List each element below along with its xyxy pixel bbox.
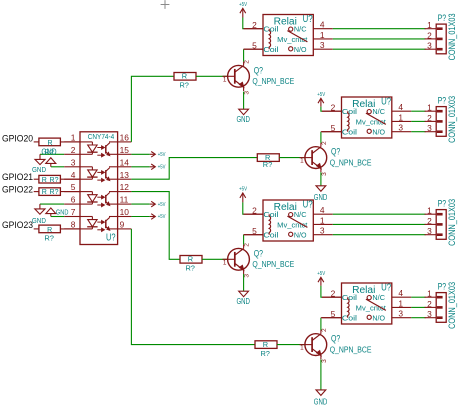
wire relay1 pin1 to P1 bbox=[333, 38, 426, 40]
svg-text:4: 4 bbox=[71, 170, 76, 180]
svg-text:U?: U? bbox=[303, 14, 313, 25]
svg-text:GND: GND bbox=[236, 114, 250, 124]
opto channel 1 (LED + phototransistor) bbox=[80, 142, 118, 157]
svg-text:Q_NPN_BCE: Q_NPN_BCE bbox=[330, 344, 372, 354]
svg-text:1: 1 bbox=[320, 215, 325, 225]
wire +5V to relay 2 coil bbox=[321, 107, 342, 112]
power +5V (horizontal) bbox=[150, 214, 166, 221]
svg-text:+5V: +5V bbox=[158, 152, 166, 158]
wire relay4 pin1 to P4 bbox=[411, 306, 425, 308]
svg-text:9: 9 bbox=[120, 220, 125, 230]
svg-text:GPIO21: GPIO21 bbox=[2, 171, 33, 182]
svg-text:10: 10 bbox=[120, 207, 130, 217]
wire relay4 pin3 to P4 bbox=[411, 317, 425, 319]
svg-text:2: 2 bbox=[244, 243, 251, 247]
transistor Q4 Q_NPN_BCE bbox=[300, 328, 328, 363]
svg-text:Q_NPN_BCE: Q_NPN_BCE bbox=[252, 259, 294, 269]
opto channel 4 (LED + phototransistor) bbox=[80, 217, 118, 232]
resistor R? (GPIO22 input) bbox=[34, 188, 80, 196]
svg-text:2: 2 bbox=[427, 216, 432, 226]
svg-text:N/C: N/C bbox=[294, 210, 307, 219]
connector P? CONN_01X03 (1) bbox=[425, 13, 458, 60]
wire pin6 to GND bbox=[40, 203, 64, 205]
power +5V (relay 3) bbox=[239, 187, 247, 203]
svg-text:Q?: Q? bbox=[254, 65, 263, 75]
svg-text:U?: U? bbox=[303, 200, 313, 211]
Q2 labels bbox=[330, 147, 372, 168]
svg-text:Coil: Coil bbox=[263, 231, 279, 240]
ground GND (Q2) bbox=[314, 186, 328, 202]
wire pin16 to R (channel 1) bbox=[131, 76, 174, 142]
resistor R? (GPIO21 input) bbox=[34, 175, 80, 183]
power +5V (relay 4) bbox=[317, 271, 325, 286]
resistor R? (GPIO20 input) bbox=[34, 138, 80, 156]
svg-text:12: 12 bbox=[120, 182, 130, 192]
svg-text:R?: R? bbox=[50, 189, 59, 196]
ground GND (pin 6) bbox=[32, 204, 46, 225]
svg-text:R?: R? bbox=[50, 177, 59, 184]
svg-text:4: 4 bbox=[398, 102, 403, 112]
relay U? Relai (4) bbox=[322, 283, 411, 324]
wire Q3 collector to relay 3 bbox=[244, 235, 263, 245]
label GPIO23 bbox=[2, 219, 33, 230]
ground GND (pin 7, inverted) bbox=[46, 207, 69, 216]
power +5V (horizontal) bbox=[150, 164, 166, 171]
svg-text:P?: P? bbox=[438, 199, 447, 210]
svg-text:6: 6 bbox=[71, 195, 76, 205]
wire pin12 to R (channel 3) bbox=[131, 192, 180, 260]
svg-text:R: R bbox=[42, 177, 47, 184]
svg-text:3: 3 bbox=[244, 91, 251, 95]
label GPIO22 bbox=[2, 184, 33, 195]
svg-text:P?: P? bbox=[438, 282, 447, 293]
wire Q2 emitter to GND bbox=[320, 172, 322, 186]
ground GND (pin 2) bbox=[32, 154, 46, 174]
svg-text:GPIO23: GPIO23 bbox=[2, 219, 33, 230]
svg-text:R?: R? bbox=[260, 349, 269, 358]
svg-text:1: 1 bbox=[320, 30, 325, 40]
ground GND (pin 3, inverted) bbox=[41, 148, 56, 167]
sheet origin crosshair bbox=[161, 0, 170, 9]
svg-text:CNY74-4: CNY74-4 bbox=[88, 134, 115, 141]
svg-text:N/O: N/O bbox=[372, 128, 385, 137]
Q3 labels bbox=[252, 248, 294, 269]
Q1 labels bbox=[252, 65, 294, 86]
svg-text:Q?: Q? bbox=[331, 147, 340, 157]
svg-text:N/C: N/C bbox=[294, 25, 307, 34]
svg-text:P?: P? bbox=[438, 96, 447, 107]
wire pin3 to GND bbox=[51, 166, 64, 168]
svg-text:CONN_01X03: CONN_01X03 bbox=[447, 282, 458, 329]
svg-text:GND: GND bbox=[32, 216, 46, 225]
svg-text:1: 1 bbox=[427, 20, 432, 30]
svg-text:Q_NPN_BCE: Q_NPN_BCE bbox=[330, 157, 372, 167]
svg-text:4: 4 bbox=[320, 20, 325, 30]
svg-text:1: 1 bbox=[427, 289, 432, 299]
wire +5V to relay 1 coil bbox=[243, 18, 263, 29]
svg-text:GND: GND bbox=[236, 296, 250, 306]
svg-text:13: 13 bbox=[120, 170, 130, 180]
svg-text:R: R bbox=[42, 189, 47, 196]
svg-text:3: 3 bbox=[427, 309, 432, 319]
wire relay1 pin4 to P1 bbox=[333, 28, 426, 30]
svg-text:1: 1 bbox=[427, 103, 432, 113]
wire R to Q3 base bbox=[202, 258, 228, 260]
wire Q2 collector to relay 2 bbox=[321, 132, 342, 143]
svg-text:+5V: +5V bbox=[239, 2, 247, 8]
U? pins left (1-8) bbox=[64, 133, 80, 230]
svg-text:2: 2 bbox=[427, 30, 432, 40]
svg-text:+5V: +5V bbox=[239, 187, 247, 193]
svg-text:R?: R? bbox=[44, 233, 54, 242]
svg-text:1: 1 bbox=[427, 206, 432, 216]
ground GND (Q1) bbox=[236, 109, 250, 124]
svg-text:N/O: N/O bbox=[294, 231, 307, 240]
svg-text:5: 5 bbox=[331, 123, 336, 133]
resistor R? (channel 1) bbox=[174, 72, 196, 90]
wire Q4 collector to relay 4 bbox=[321, 318, 342, 330]
svg-text:2: 2 bbox=[427, 113, 432, 123]
svg-text:4: 4 bbox=[398, 288, 403, 298]
wire R to Q4 base bbox=[277, 344, 305, 346]
svg-text:3: 3 bbox=[398, 123, 403, 133]
svg-text:P?: P? bbox=[438, 13, 447, 24]
svg-text:2: 2 bbox=[427, 299, 432, 309]
svg-text:R: R bbox=[47, 140, 52, 147]
svg-text:3: 3 bbox=[427, 41, 432, 51]
svg-text:R?: R? bbox=[263, 160, 272, 169]
svg-text:1: 1 bbox=[223, 259, 227, 266]
wire pin to +5V bbox=[131, 203, 149, 205]
svg-text:GND: GND bbox=[41, 148, 56, 157]
relay U? Relai (1) bbox=[244, 14, 333, 55]
transistor Q2 Q_NPN_BCE bbox=[300, 141, 328, 176]
label GPIO20 bbox=[2, 132, 33, 143]
svg-text:5: 5 bbox=[71, 182, 76, 192]
connector P? CONN_01X03 (4) bbox=[425, 282, 458, 329]
svg-text:Coil: Coil bbox=[342, 314, 358, 323]
wire relay2 pin1 to P2 bbox=[411, 120, 425, 122]
svg-text:GND: GND bbox=[56, 207, 69, 216]
resistor R? (channel 4) bbox=[255, 340, 277, 358]
wire pin2 to GND bbox=[40, 153, 64, 155]
wire relay4 pin4 to P4 bbox=[411, 296, 425, 298]
relay U? Relai (3) bbox=[244, 200, 333, 241]
svg-text:R: R bbox=[182, 72, 187, 81]
svg-text:2: 2 bbox=[71, 145, 76, 155]
svg-text:1: 1 bbox=[300, 345, 304, 352]
svg-text:8: 8 bbox=[71, 220, 76, 230]
svg-text:7: 7 bbox=[71, 207, 76, 217]
wire relay2 pin3 to P2 bbox=[411, 131, 425, 133]
wire pin to +5V bbox=[131, 153, 149, 155]
svg-text:U?: U? bbox=[106, 233, 116, 244]
svg-text:GND: GND bbox=[314, 192, 328, 202]
power +5V (relay 1) bbox=[239, 2, 247, 17]
power +5V (relay 2) bbox=[317, 92, 325, 107]
svg-text:Q?: Q? bbox=[331, 334, 340, 344]
wire Q1 emitter to GND bbox=[243, 92, 245, 110]
wire Q1 collector to relay 1 bbox=[244, 49, 263, 61]
resistor R? (GPIO23 input) bbox=[34, 225, 80, 242]
svg-text:R?: R? bbox=[185, 264, 194, 273]
svg-text:5: 5 bbox=[252, 40, 257, 50]
U? pins right (16-9) bbox=[118, 133, 132, 230]
svg-text:5: 5 bbox=[252, 226, 257, 236]
svg-text:5: 5 bbox=[331, 309, 336, 319]
svg-text:U?: U? bbox=[381, 283, 391, 294]
resistor R? (channel 2) bbox=[257, 153, 279, 169]
svg-text:16: 16 bbox=[120, 133, 130, 143]
power +5V (horizontal) bbox=[150, 152, 166, 159]
wire pin9 to R (channel 4) bbox=[131, 229, 255, 345]
svg-text:Coil: Coil bbox=[263, 25, 279, 34]
svg-text:2: 2 bbox=[252, 20, 257, 30]
wire +5V to relay 3 coil bbox=[243, 202, 263, 214]
svg-text:11: 11 bbox=[120, 195, 129, 205]
svg-text:3: 3 bbox=[321, 172, 328, 176]
power +5V (horizontal) bbox=[150, 201, 166, 208]
svg-text:N/O: N/O bbox=[372, 314, 385, 323]
svg-text:R?: R? bbox=[179, 81, 188, 90]
svg-text:CONN_01X03: CONN_01X03 bbox=[447, 96, 458, 143]
ground GND (Q3) bbox=[236, 291, 250, 306]
svg-text:3: 3 bbox=[398, 309, 403, 319]
svg-text:GPIO22: GPIO22 bbox=[2, 184, 33, 195]
svg-text:N/C: N/C bbox=[372, 107, 385, 116]
svg-text:GND: GND bbox=[314, 397, 328, 407]
svg-text:4: 4 bbox=[320, 205, 325, 215]
wire R to Q2 base bbox=[279, 157, 304, 159]
svg-text:U?: U? bbox=[381, 97, 391, 108]
svg-text:14: 14 bbox=[120, 157, 130, 167]
svg-text:3: 3 bbox=[244, 274, 251, 278]
svg-text:CONN_01X03: CONN_01X03 bbox=[447, 199, 458, 246]
svg-text:R: R bbox=[188, 255, 193, 264]
wire +5V to relay 4 coil bbox=[321, 286, 342, 297]
transistor Q3 Q_NPN_BCE bbox=[223, 243, 251, 278]
svg-text:N/O: N/O bbox=[294, 45, 307, 54]
opto channel 2 (LED + phototransistor) bbox=[80, 167, 118, 182]
svg-text:+5V: +5V bbox=[158, 202, 166, 208]
svg-text:+5V: +5V bbox=[158, 165, 166, 171]
svg-text:2: 2 bbox=[252, 205, 257, 215]
svg-text:Q?: Q? bbox=[254, 248, 263, 258]
wire relay2 pin4 to P2 bbox=[411, 110, 425, 112]
optocoupler U? CNY74-4 body bbox=[80, 132, 118, 245]
svg-text:Coil: Coil bbox=[263, 45, 279, 54]
svg-text:2: 2 bbox=[244, 60, 251, 64]
svg-text:Coil: Coil bbox=[342, 293, 358, 302]
wire pin to +5V bbox=[131, 166, 149, 168]
svg-text:3: 3 bbox=[321, 359, 328, 363]
svg-text:+5V: +5V bbox=[158, 214, 166, 220]
relay U? Relai (2) bbox=[322, 97, 411, 138]
svg-text:GND: GND bbox=[32, 165, 46, 174]
svg-text:3: 3 bbox=[427, 123, 432, 133]
svg-text:CONN_01X03: CONN_01X03 bbox=[447, 13, 458, 60]
svg-text:3: 3 bbox=[320, 226, 325, 236]
wire R to Q1 base bbox=[196, 75, 228, 77]
svg-text:+5V: +5V bbox=[317, 92, 325, 98]
transistor Q1 Q_NPN_BCE bbox=[223, 60, 251, 95]
resistor R? (channel 3) bbox=[180, 255, 202, 273]
wire pin13 to R (channel 2) bbox=[131, 158, 257, 180]
wire Q4 emitter to GND bbox=[320, 360, 322, 390]
svg-text:3: 3 bbox=[427, 226, 432, 236]
svg-text:GPIO20: GPIO20 bbox=[2, 132, 33, 143]
svg-text:1: 1 bbox=[223, 76, 227, 83]
Q4 labels bbox=[330, 334, 372, 355]
connector P? CONN_01X03 (3) bbox=[425, 199, 458, 246]
svg-text:+5V: +5V bbox=[317, 271, 325, 277]
svg-text:Coil: Coil bbox=[263, 210, 279, 219]
svg-text:1: 1 bbox=[398, 298, 403, 308]
wire pin to +5V bbox=[131, 216, 149, 218]
svg-text:3: 3 bbox=[71, 157, 76, 167]
svg-text:Coil: Coil bbox=[342, 128, 358, 137]
opto channel 3 (LED + phototransistor) bbox=[80, 192, 118, 207]
svg-text:1: 1 bbox=[300, 158, 304, 165]
wire relay3 pin4 to P3 bbox=[333, 213, 426, 215]
wire pin7 to GND bbox=[51, 216, 64, 218]
wire Q3 emitter to GND bbox=[243, 274, 245, 291]
ground GND (Q4) bbox=[314, 390, 328, 407]
svg-text:N/C: N/C bbox=[372, 293, 385, 302]
svg-text:Q_NPN_BCE: Q_NPN_BCE bbox=[252, 76, 294, 86]
wire relay1 pin3 to P1 bbox=[333, 48, 426, 50]
svg-text:1: 1 bbox=[71, 133, 76, 143]
wire relay3 pin1 to P3 bbox=[333, 223, 426, 225]
svg-text:2: 2 bbox=[321, 328, 328, 332]
svg-text:R: R bbox=[263, 340, 268, 349]
svg-text:15: 15 bbox=[120, 145, 130, 155]
wire relay3 pin3 to P3 bbox=[333, 234, 426, 236]
svg-text:2: 2 bbox=[331, 102, 336, 112]
svg-text:Coil: Coil bbox=[342, 107, 358, 116]
svg-text:2: 2 bbox=[331, 288, 336, 298]
svg-text:2: 2 bbox=[321, 141, 328, 145]
svg-text:1: 1 bbox=[398, 112, 403, 122]
label GPIO21 bbox=[2, 171, 33, 182]
svg-text:3: 3 bbox=[320, 40, 325, 50]
connector P? CONN_01X03 (2) bbox=[425, 96, 458, 143]
